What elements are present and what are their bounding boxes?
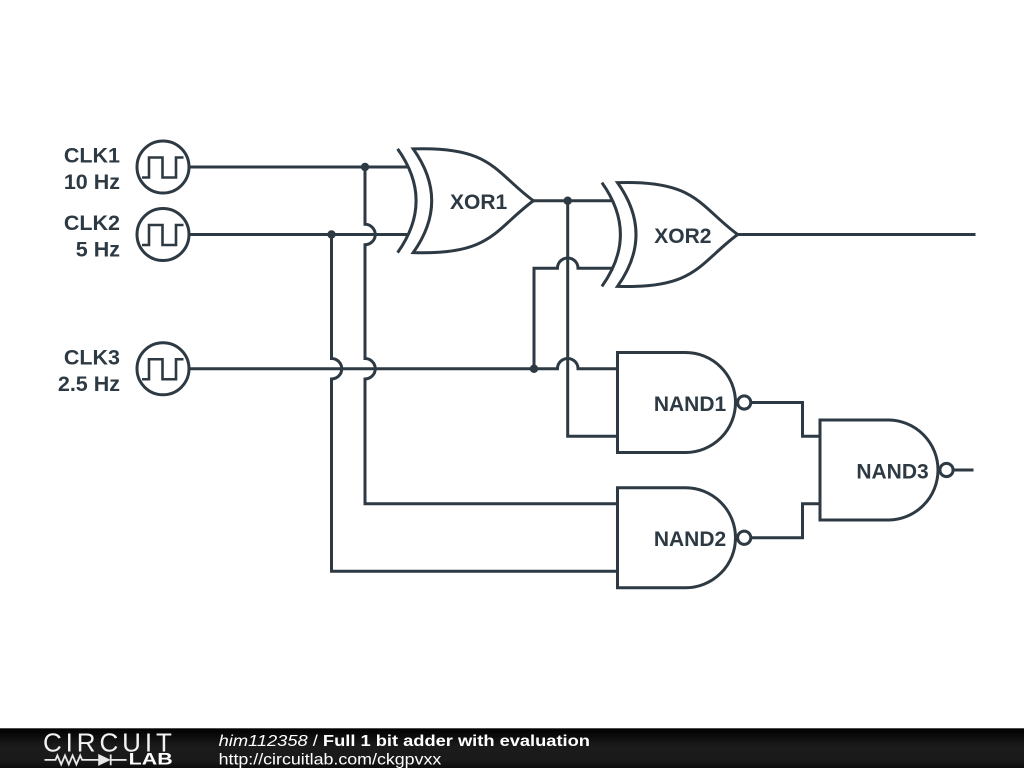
svg-text:XOR1: XOR1 <box>450 191 508 214</box>
clock source CLK2 <box>137 209 189 261</box>
svg-text:NAND3: NAND3 <box>856 460 928 483</box>
svg-text:NAND2: NAND2 <box>654 528 726 551</box>
svg-text:http://circuitlab.com/ckgpvxx: http://circuitlab.com/ckgpvxx <box>219 750 442 768</box>
junction dot node C (CLK3 branch) <box>530 365 538 373</box>
wire NAND2 output to NAND3 lower input <box>752 504 820 538</box>
xor gate XOR2 <box>602 182 738 286</box>
junction dot node B (CLK2 branch) <box>327 230 335 238</box>
svg-text:CLK2: CLK2 <box>64 211 120 235</box>
nand gate NAND2 <box>618 488 751 588</box>
wire CLK1 branch down to NAND2 upper input with hops over CLK2 and CLK3 wires <box>365 167 618 504</box>
wire XOR1 output branch down to NAND1 lower input <box>568 201 618 437</box>
wire XOR2 output <box>736 233 976 236</box>
wire NAND3 output <box>954 469 974 472</box>
wire CLK3 to NAND1 upper input with hop over XOR1-output branch <box>189 358 618 368</box>
svg-text:XOR2: XOR2 <box>654 225 711 248</box>
wire node C up to XOR2 lower input with hop over XOR1-output branch <box>534 258 613 369</box>
svg-text:CLK3: CLK3 <box>64 345 120 369</box>
svg-text:2.5 Hz: 2.5 Hz <box>58 372 120 396</box>
wire CLK1 to XOR1 upper input <box>189 166 409 169</box>
nand gate NAND1 <box>618 353 751 453</box>
wire NAND1 output to NAND3 upper input <box>752 403 820 437</box>
label CLK2 5 Hz <box>64 211 120 262</box>
wire CLK2 branch down to NAND2 lower input with hop over CLK3 wire <box>332 235 618 572</box>
xor gate XOR1 <box>398 149 534 253</box>
svg-text:LAB: LAB <box>129 750 173 768</box>
label CLK3 2.5 Hz <box>58 345 120 396</box>
wire CLK2 to XOR1 lower input <box>189 233 409 236</box>
svg-text:NAND1: NAND1 <box>654 393 727 416</box>
footer bar <box>0 728 1024 768</box>
clock source CLK3 <box>137 343 189 395</box>
svg-text:10 Hz: 10 Hz <box>64 170 120 194</box>
svg-text:him112358 / Full 1 bit adder w: him112358 / Full 1 bit adder with evalua… <box>219 732 590 749</box>
wire XOR1 output to XOR2 upper input <box>531 199 613 202</box>
nand gate NAND3 <box>820 420 953 520</box>
svg-text:5 Hz: 5 Hz <box>76 238 120 262</box>
CircuitLab logo resistor-diode glyph <box>45 755 127 766</box>
svg-text:CLK1: CLK1 <box>64 144 120 168</box>
clock source CLK1 <box>137 141 189 193</box>
junction dot node A (CLK1 branch) <box>361 163 369 171</box>
junction dot node S1 (XOR1 output) <box>564 197 572 205</box>
label CLK1 10 Hz <box>64 144 120 195</box>
